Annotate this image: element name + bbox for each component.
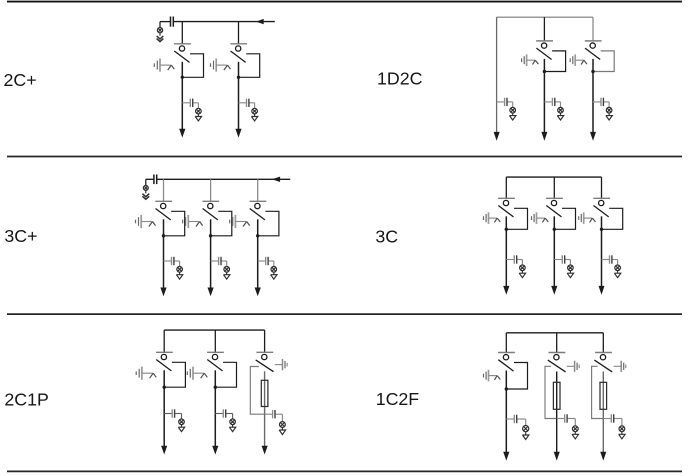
wire 2C+ bay1 tap branch bbox=[182, 103, 198, 109]
wire 3C bay3 feeder conductor bbox=[601, 216, 603, 287]
earthing switch 2C1P bay2 blade bbox=[193, 373, 207, 378]
switch 3C bay3 open blade bbox=[594, 206, 609, 217]
earth 1D2C feeder indicator earth triangle bbox=[510, 113, 516, 120]
cable feeder arrow 2C+ bay1 bbox=[179, 129, 185, 138]
table bottom rule bbox=[7, 470, 682, 472]
wire 1C2F bay1 riser from busbar bbox=[505, 333, 507, 353]
wire 1D2C bay3 tap branch bbox=[593, 102, 609, 108]
incoming line arrow 2C+ bbox=[256, 19, 264, 24]
wire 2C1P bay1 tap branch bbox=[164, 414, 181, 420]
indicator lamp 3C bay1 voltage indicator bbox=[520, 265, 526, 271]
wire 3C bay1 riser from busbar bbox=[505, 177, 507, 198]
wire 1D2C bay2 tap branch bbox=[544, 102, 560, 108]
wire 1C2F bay3 fuse conductor bbox=[602, 372, 604, 454]
capacitor 1C2F bay3 tap divider capacitor bbox=[611, 414, 613, 422]
wire 2C1P bay3 riser from busbar bbox=[264, 330, 266, 352]
earth 3C bay3 indicator earth triangle bbox=[614, 271, 620, 278]
svg-text:3C+: 3C+ bbox=[4, 226, 37, 246]
indicator lamp 3C bay3 voltage indicator bbox=[615, 265, 621, 271]
incoming line arrow 3C+ bbox=[272, 177, 280, 182]
wire 3C+ bay2 tap branch bbox=[211, 261, 227, 267]
wire 1C2F bay3 riser from busbar bbox=[602, 333, 604, 353]
svg-text:1D2C: 1D2C bbox=[377, 69, 423, 89]
switch 3C bay3 three-position frame bbox=[602, 208, 623, 229]
node 1D2C bay2 junction bbox=[543, 70, 546, 73]
earth 2C+ bay2 indicator earth triangle bbox=[251, 114, 257, 121]
ground 3C bay3 earthing-switch earth electrode bbox=[579, 212, 584, 224]
wire 3C bay3 tap branch bbox=[602, 260, 618, 266]
wire 3C+ bay1 tap branch bbox=[164, 261, 180, 267]
switch 1C2F bay1 three-position frame bbox=[506, 363, 527, 390]
earth 3C+ indicator earth chevrons bbox=[142, 194, 149, 200]
node 2C+ bay2 junction bbox=[237, 76, 240, 79]
svg-text:2C1P: 2C1P bbox=[4, 390, 48, 410]
switch 3C+ bay3 three-position frame bbox=[258, 211, 279, 236]
capacitor 3C bay2 tap divider capacitor bbox=[562, 255, 564, 263]
cable feeder arrow 3C+ bay3 bbox=[255, 288, 261, 297]
switch 3C bay1 open blade bbox=[498, 206, 513, 217]
ground 1C2F bay2 earth electrode bbox=[575, 361, 580, 372]
svg-text:2C+: 2C+ bbox=[4, 70, 37, 90]
earthing switch 1C2F bay3 link bbox=[614, 365, 621, 367]
capacitor 1C2F bay2 tap divider capacitor bbox=[565, 414, 567, 422]
table row separator 2 bbox=[7, 313, 682, 315]
switch 2C1P bay1 three-position frame bbox=[164, 362, 185, 387]
cable feeder arrow 3C bay3 bbox=[599, 286, 605, 295]
table top rule bbox=[7, 1, 682, 3]
switch 1C2F bay3 switch-fuse pivot bbox=[600, 355, 605, 360]
cable feeder arrow 2C+ bay2 bbox=[235, 129, 241, 138]
svg-text:3C: 3C bbox=[375, 227, 398, 247]
earth 3C+ bay3 indicator earth triangle bbox=[271, 272, 277, 279]
indicator lamp 1C2F bay2 voltage indicator bbox=[572, 426, 578, 432]
switch 3C+ bay3 load-break switch pivot bbox=[255, 203, 260, 208]
earthing switch 3C bay1 blade bbox=[489, 218, 501, 222]
earth 2C1P bay2 indicator earth triangle bbox=[229, 425, 235, 432]
wire 3C bay1 feeder conductor bbox=[505, 216, 507, 287]
node 3C+ bay2 fixed contact bar bbox=[202, 200, 219, 202]
ground 1D2C bay3 earthing-switch earth electrode bbox=[570, 54, 575, 66]
wire 1C2F bay3 tap branch bbox=[603, 419, 622, 426]
busbar 2C+ main busbar bbox=[174, 21, 275, 23]
earthing switch 2C+ bay1 blade bbox=[160, 65, 174, 70]
switch 1C2F bay1 open blade bbox=[498, 360, 513, 371]
ground 1D2C bay2 earthing-switch earth electrode bbox=[522, 54, 527, 66]
wire 3C+ bay1 feeder conductor bbox=[163, 219, 165, 289]
indicator lamp 3C bay2 voltage indicator bbox=[568, 265, 574, 271]
cable feeder arrow 3C+ bay2 bbox=[208, 288, 214, 297]
wire 3C+ bay3 tap branch bbox=[258, 261, 274, 267]
node 1D2C bay2 fixed contact bar bbox=[536, 40, 553, 42]
wire 2C1P bay2 feeder conductor bbox=[214, 370, 216, 447]
earthing switch 1C2F bay1 blade bbox=[489, 376, 501, 380]
wire 1C2F bay2 fuse bypass frame bbox=[545, 366, 557, 418]
earthing switch 2C+ bay2 blade bbox=[216, 65, 230, 70]
earth 2C+ bay1 indicator earth triangle bbox=[195, 114, 201, 121]
busbar 1C2F bbox=[506, 332, 603, 334]
earth 1D2C bay2 indicator earth triangle bbox=[557, 113, 563, 120]
cable feeder arrow 3C+ bay1 bbox=[160, 288, 166, 297]
ground 2C1P bay1 earthing-switch earth electrode bbox=[136, 367, 142, 380]
switch 1D2C bay2 open blade bbox=[536, 48, 551, 59]
switch 2C1P bay2 load-break switch pivot bbox=[212, 354, 217, 359]
node 3C bay1 fixed contact bar bbox=[498, 197, 515, 199]
indicator lamp 3C+ busbar voltage indicator bbox=[143, 179, 148, 193]
node 2C1P bay1 fixed contact bar bbox=[156, 351, 173, 353]
busbar 3C+ main busbar bbox=[157, 178, 290, 180]
switch 2C1P bay3 switch-fuse pivot bbox=[262, 354, 267, 359]
switch 2C+ bay2 three-position frame bbox=[239, 54, 260, 78]
switch 1D2C bay3 three-position frame bbox=[593, 51, 614, 72]
switch 2C+ bay2 load-break switch pivot bbox=[236, 46, 241, 51]
node 2C1P bay3 fixed contact bar bbox=[256, 351, 273, 353]
switch 3C bay3 load-break switch pivot bbox=[599, 200, 604, 205]
wire 2C+ bay1 riser from busbar bbox=[181, 22, 183, 44]
table row separator 1 bbox=[7, 156, 682, 158]
switch 3C bay2 open blade bbox=[546, 206, 561, 217]
node 2C1P bay2 junction bbox=[214, 386, 217, 389]
indicator lamp 2C+ busbar voltage indicator bbox=[157, 22, 162, 36]
ground 2C+ bay2 earthing-switch earth electrode bbox=[211, 59, 217, 72]
earth 3C bay1 indicator earth triangle bbox=[519, 271, 525, 278]
cable feeder arrow 1D2C feeder bbox=[494, 132, 500, 141]
wire 2C+ bay2 tap branch bbox=[239, 103, 255, 109]
ground 1C2F bay3 earth electrode bbox=[621, 361, 626, 372]
capacitor 2C1P bay3 tap divider capacitor bbox=[273, 410, 275, 418]
node 1C2F bay1 junction bbox=[505, 387, 508, 390]
capacitor 2C+ bay2 tap divider capacitor bbox=[247, 99, 249, 107]
wire 1C2F bay2 riser from busbar bbox=[556, 333, 558, 353]
fuse 2C1P bay3 fuse link bbox=[261, 380, 268, 406]
earth 2C1P bay3 indicator earth triangle bbox=[279, 427, 285, 434]
indicator lamp 3C+ bay3 voltage indicator bbox=[271, 267, 277, 273]
earthing switch 1D2C bay2 blade bbox=[527, 60, 539, 64]
ground 3C bay1 earthing-switch earth electrode bbox=[484, 212, 489, 224]
switch 3C+ bay2 open blade bbox=[203, 209, 218, 220]
node 1C2F bay2 fixed contact bar bbox=[549, 352, 566, 354]
earthing switch 3C bay3 blade bbox=[584, 218, 596, 222]
capacitor 3C+ bay3 tap divider capacitor bbox=[266, 257, 268, 265]
switch 1C2F bay2 open blade bbox=[548, 360, 566, 372]
ground 3C+ bay1 earthing-switch earth electrode bbox=[136, 215, 142, 228]
earthing switch 1C2F bay2 link bbox=[567, 365, 574, 367]
wire 3C+ bay3 riser from busbar bbox=[257, 179, 259, 201]
switch 3C+ bay1 three-position frame bbox=[164, 211, 185, 236]
wire 3C bay2 tap branch bbox=[554, 260, 570, 266]
switch 1D2C bay3 open blade bbox=[585, 48, 600, 59]
wire 1D2C bay3 feeder conductor bbox=[592, 59, 594, 134]
capacitor 1D2C bay3 tap divider capacitor bbox=[601, 98, 603, 106]
fuse 1C2F bay3 fuse link bbox=[600, 382, 607, 409]
capacitor 3C+ busbar series capacitor bbox=[154, 175, 157, 185]
wire 2C1P bay1 feeder conductor bbox=[163, 370, 165, 447]
indicator lamp 1D2C feeder voltage indicator bbox=[510, 107, 516, 113]
ground 3C bay2 earthing-switch earth electrode bbox=[532, 212, 537, 224]
wire 3C+ bay2 riser from busbar bbox=[210, 179, 212, 201]
earth 2C1P bay1 indicator earth triangle bbox=[178, 425, 184, 432]
earth 3C+ bay1 indicator earth triangle bbox=[176, 272, 182, 279]
earth 1C2F bay3 indicator earth triangle bbox=[619, 432, 625, 439]
wire 3C bay2 feeder conductor bbox=[553, 216, 555, 287]
indicator lamp 2C+ bay1 voltage indicator bbox=[196, 108, 202, 114]
earth 2C+ indicator earth chevrons bbox=[157, 36, 164, 42]
earth 1C2F bay2 indicator earth triangle bbox=[572, 432, 578, 439]
earth 1C2F bay1 indicator earth triangle bbox=[523, 432, 529, 440]
node 2C1P bay1 junction bbox=[163, 386, 166, 389]
wire 2C1P bay1 riser from busbar bbox=[163, 330, 165, 352]
wire 1C2F bay2 fuse conductor bbox=[556, 372, 558, 454]
capacitor 1D2C feeder tap divider capacitor bbox=[505, 98, 507, 106]
wire 1C2F bay2 tap branch bbox=[557, 419, 576, 426]
switch 2C+ bay1 load-break switch pivot bbox=[179, 46, 184, 51]
wire 3C+ bay3 feeder conductor bbox=[257, 219, 259, 289]
earth 3C bay2 indicator earth triangle bbox=[567, 271, 573, 278]
node 3C+ bay3 fixed contact bar bbox=[250, 200, 267, 202]
switch 3C+ bay1 load-break switch pivot bbox=[161, 203, 166, 208]
capacitor 2C+ bay1 tap divider capacitor bbox=[190, 99, 192, 107]
busbar 2C+ left section bbox=[160, 21, 170, 23]
capacitor 3C bay3 tap divider capacitor bbox=[610, 255, 612, 263]
ground 3C+ bay2 earthing-switch earth electrode bbox=[183, 215, 189, 228]
indicator lamp 2C1P bay1 voltage indicator bbox=[179, 419, 185, 425]
switch 3C+ bay1 open blade bbox=[156, 209, 171, 220]
wire 3C+ bay2 feeder conductor bbox=[210, 219, 212, 289]
switch 3C bay2 three-position frame bbox=[554, 208, 575, 229]
wire 2C1P bay3 fuse conductor bbox=[264, 371, 266, 447]
indicator lamp 2C+ bay2 voltage indicator bbox=[252, 108, 258, 114]
node 3C+ bay2 junction bbox=[209, 234, 212, 237]
cable feeder arrow 2C1P bay1 bbox=[161, 446, 167, 455]
wire 2C1P bay3 tap branch bbox=[265, 414, 283, 421]
earthing switch 3C bay2 blade bbox=[537, 218, 549, 222]
cable feeder arrow 1C2F bay2 bbox=[554, 452, 560, 461]
cable feeder arrow 1D2C bay2 bbox=[541, 132, 547, 141]
switch 1C2F bay2 switch-fuse pivot bbox=[554, 355, 559, 360]
earthing switch 2C1P bay3 link bbox=[275, 364, 282, 366]
wire 1C2F bay1 tap branch bbox=[506, 419, 525, 426]
cable feeder arrow 2C1P bay2 bbox=[212, 446, 218, 455]
wire 1D2C bay2 feeder conductor bbox=[543, 59, 545, 134]
busbar 3C+ left section bbox=[146, 178, 154, 180]
node 2C+ bay1 junction bbox=[181, 76, 184, 79]
switch 3C+ bay2 three-position frame bbox=[211, 211, 232, 236]
busbar 2C1P bbox=[164, 329, 264, 331]
wire 1C2F bay1 feeder conductor bbox=[505, 371, 507, 454]
node 3C bay2 junction bbox=[553, 228, 556, 231]
indicator lamp 2C1P bay2 voltage indicator bbox=[230, 419, 236, 425]
capacitor 3C bay1 tap divider capacitor bbox=[514, 255, 516, 263]
earthing switch 3C+ bay1 blade bbox=[141, 222, 155, 227]
ground 2C1P bay2 earthing-switch earth electrode bbox=[187, 367, 193, 380]
switch 1D2C bay2 load-break switch pivot bbox=[541, 43, 546, 48]
node 3C+ bay1 junction bbox=[162, 234, 165, 237]
capacitor 3C+ bay2 tap divider capacitor bbox=[219, 257, 221, 265]
switch 1D2C bay2 three-position frame bbox=[544, 51, 565, 72]
wire 1D2C direct feeder bbox=[496, 17, 498, 134]
node 3C bay3 junction bbox=[600, 228, 603, 231]
node 1C2F bay1 fixed contact bar bbox=[498, 352, 515, 354]
wire 3C+ bay1 riser from busbar bbox=[163, 179, 165, 201]
switch 2C1P bay2 three-position frame bbox=[215, 362, 236, 387]
earth 1D2C bay3 indicator earth triangle bbox=[606, 113, 612, 120]
busbar 1D2C bbox=[497, 16, 593, 18]
fuse 1C2F bay2 fuse link bbox=[553, 382, 560, 409]
cable feeder arrow 1C2F bay1 bbox=[503, 452, 509, 461]
node 3C+ bay3 junction bbox=[256, 234, 259, 237]
ground 1C2F bay1 earthing-switch earth electrode bbox=[484, 370, 489, 382]
wire 2C+ bay1 feeder conductor bbox=[181, 62, 183, 131]
indicator lamp 3C+ bay1 voltage indicator bbox=[177, 267, 183, 273]
earthing switch 3C+ bay2 blade bbox=[188, 222, 202, 227]
node 1C2F bay3 fixed contact bar bbox=[595, 352, 612, 354]
cable feeder arrow 2C1P bay3 bbox=[262, 446, 268, 455]
indicator lamp 3C+ bay2 voltage indicator bbox=[224, 267, 230, 273]
switch 3C+ bay2 load-break switch pivot bbox=[208, 203, 213, 208]
earth 3C+ bay2 indicator earth triangle bbox=[224, 272, 230, 279]
earthing switch 1D2C bay3 blade bbox=[575, 60, 587, 64]
node 3C bay3 fixed contact bar bbox=[593, 197, 610, 199]
wire 3C bay2 riser from busbar bbox=[553, 177, 555, 198]
cable feeder arrow 1C2F bay3 bbox=[600, 452, 606, 461]
capacitor 2C1P bay2 tap divider capacitor bbox=[223, 409, 225, 417]
wire 1D2C feeder tap branch bbox=[497, 102, 513, 108]
cable feeder arrow 3C bay2 bbox=[551, 286, 557, 295]
switch 3C bay1 load-break switch pivot bbox=[503, 200, 508, 205]
busbar 3C bbox=[506, 176, 601, 178]
capacitor 2C1P bay1 tap divider capacitor bbox=[172, 409, 174, 417]
switch 1C2F bay3 open blade bbox=[594, 360, 612, 372]
indicator lamp 1D2C bay3 voltage indicator bbox=[606, 107, 612, 113]
switch 3C bay2 load-break switch pivot bbox=[551, 200, 556, 205]
node 2C+ bay2 fixed contact bar bbox=[230, 43, 247, 45]
switch 3C bay1 three-position frame bbox=[506, 208, 527, 229]
switch 2C1P bay2 open blade bbox=[207, 360, 222, 371]
switch 2C1P bay1 load-break switch pivot bbox=[161, 354, 166, 359]
wire 2C+ bay2 feeder conductor bbox=[238, 62, 240, 131]
node 3C+ bay1 fixed contact bar bbox=[155, 200, 172, 202]
wire 2C+ bay2 riser from busbar bbox=[238, 22, 240, 44]
node 1D2C bay3 fixed contact bar bbox=[585, 40, 602, 42]
indicator lamp 1D2C bay2 voltage indicator bbox=[558, 107, 564, 113]
wire 1C2F bay3 fuse bypass frame bbox=[592, 366, 604, 418]
node 3C bay2 fixed contact bar bbox=[546, 197, 563, 199]
capacitor 1C2F bay1 tap divider capacitor bbox=[514, 415, 516, 423]
wire 3C bay1 tap branch bbox=[506, 260, 522, 266]
node 2C+ bay1 fixed contact bar bbox=[174, 43, 191, 45]
wire 2C1P bay3 fuse bypass frame bbox=[250, 367, 264, 415]
switch 3C+ bay3 open blade bbox=[250, 209, 265, 220]
node 1D2C bay3 junction bbox=[591, 70, 594, 73]
svg-text:1C2F: 1C2F bbox=[376, 389, 420, 409]
node 2C1P bay2 fixed contact bar bbox=[207, 351, 224, 353]
wire 1D2C bay2 riser from busbar bbox=[543, 17, 545, 41]
ground 2C+ bay1 earthing-switch earth electrode bbox=[154, 59, 160, 72]
cable feeder arrow 3C bay1 bbox=[503, 286, 509, 295]
ground 2C1P bay3 earth electrode bbox=[283, 359, 288, 370]
indicator lamp 2C1P bay3 voltage indicator bbox=[280, 422, 286, 428]
capacitor 1D2C bay2 tap divider capacitor bbox=[552, 98, 554, 106]
indicator lamp 1C2F bay3 voltage indicator bbox=[619, 426, 625, 432]
wire 1D2C bay3 riser from busbar bbox=[592, 17, 594, 41]
earthing switch 3C+ bay3 blade bbox=[235, 222, 249, 227]
cable feeder arrow 1D2C bay3 bbox=[590, 132, 596, 141]
wire 2C1P bay2 riser from busbar bbox=[214, 330, 216, 352]
switch 2C+ bay1 open blade bbox=[174, 51, 189, 62]
capacitor 3C+ bay1 tap divider capacitor bbox=[172, 257, 174, 265]
node 3C bay1 junction bbox=[505, 228, 508, 231]
switch 2C+ bay1 three-position frame bbox=[182, 54, 203, 78]
indicator lamp 1C2F bay1 voltage indicator bbox=[523, 426, 529, 432]
switch 2C+ bay2 open blade bbox=[231, 51, 246, 62]
capacitor 2C+ busbar series capacitor bbox=[171, 17, 174, 27]
switch 1D2C bay3 load-break switch pivot bbox=[590, 43, 595, 48]
switch 2C1P bay1 open blade bbox=[156, 360, 171, 371]
ground 3C+ bay3 earthing-switch earth electrode bbox=[230, 215, 236, 228]
wire 2C1P bay2 tap branch bbox=[215, 414, 232, 420]
switch 2C1P bay3 open blade bbox=[256, 360, 274, 372]
earthing switch 2C1P bay1 blade bbox=[142, 373, 156, 378]
wire 3C bay3 riser from busbar bbox=[601, 177, 603, 198]
switch 1C2F bay1 load-break switch pivot bbox=[503, 355, 508, 360]
